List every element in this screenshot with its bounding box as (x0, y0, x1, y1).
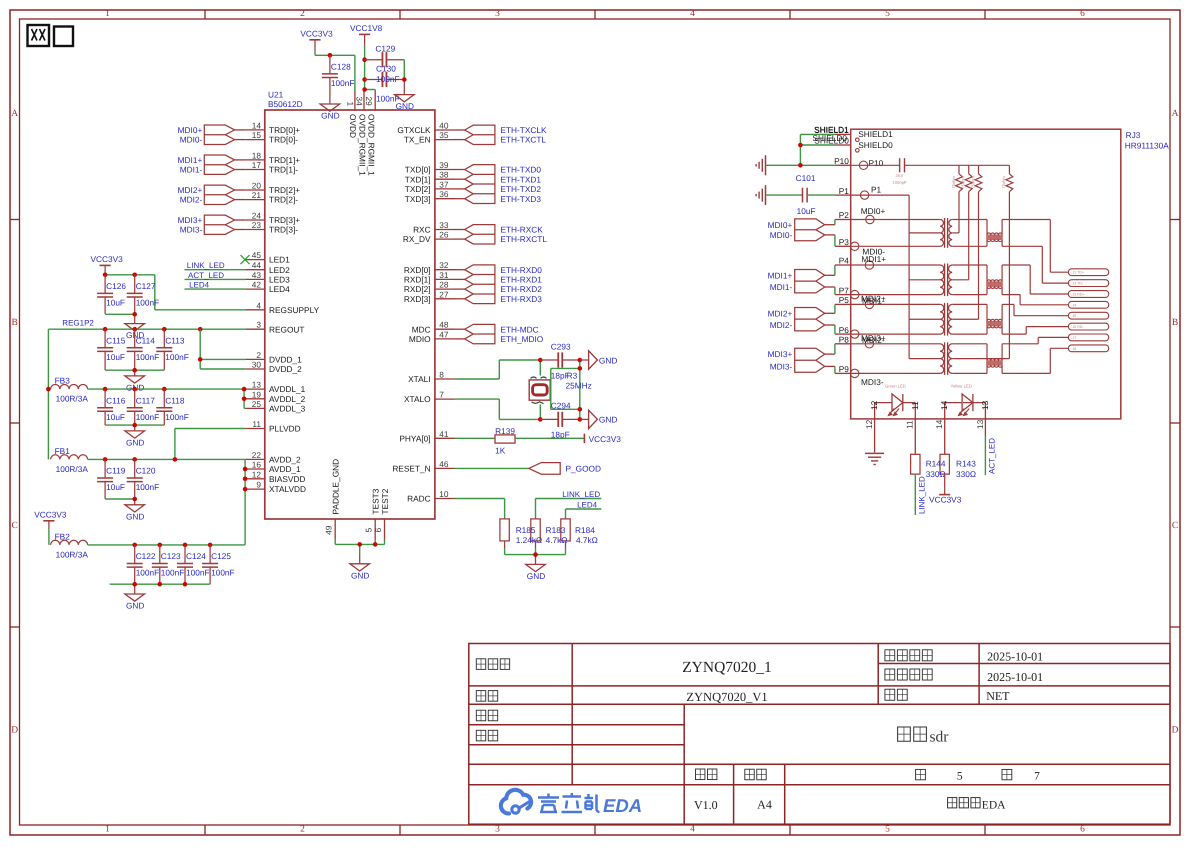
junction (373, 542, 378, 547)
svg-text:1K: 1K (495, 445, 506, 455)
svg-text:1: 1 (105, 825, 110, 835)
common-mode choke L1 (986, 220, 1003, 247)
U21 pin 24 TRD[3]+ (245, 211, 300, 226)
svg-text:14: 14 (934, 419, 944, 429)
junction (198, 357, 203, 362)
junction (578, 407, 583, 412)
net port MDI0+/MDI0- (RJ45 side) (768, 219, 835, 246)
svg-text:R183: R183 (546, 525, 566, 535)
U21 pin 9 XTALVDD (245, 480, 306, 495)
svg-text:TEST2: TEST2 (380, 488, 390, 514)
U21 pin 8 XTALI (408, 370, 454, 385)
ferrite bead FB1 (51, 446, 89, 474)
U21 pin 49 PADDLE_GND (324, 459, 341, 540)
junction (243, 487, 248, 492)
svg-text:AVDD_1: AVDD_1 (269, 464, 301, 474)
earth ground pin12 (865, 453, 884, 464)
svg-text:MDI1+: MDI1+ (178, 155, 203, 165)
wire REGOUT rail (48, 329, 245, 459)
svg-text:P6: P6 (839, 325, 850, 335)
U21 pin 16 AVDD_1 (245, 460, 301, 475)
svg-text:BIASVDD: BIASVDD (269, 474, 305, 484)
svg-text:TRD[3]-: TRD[3]- (269, 225, 298, 235)
svg-text:ETH-RXD3: ETH-RXD3 (500, 294, 542, 304)
JLC EDA logo (501, 790, 642, 816)
svg-text:P5: P5 (839, 295, 850, 305)
svg-text:J4: J4 (1073, 303, 1077, 307)
svg-text:MDI2+: MDI2+ (178, 185, 203, 195)
svg-text:40: 40 (439, 121, 449, 131)
svg-text:VCC3V3: VCC3V3 (300, 29, 333, 39)
svg-text:RXD[2]: RXD[2] (404, 284, 431, 294)
resistor R183 (531, 519, 540, 541)
ferrite bead FB2 (51, 531, 89, 559)
svg-text:28: 28 (439, 280, 449, 290)
junction (103, 387, 108, 392)
svg-text:4: 4 (256, 300, 261, 310)
svg-text:ETH-TXD1: ETH-TXD1 (500, 174, 541, 184)
svg-text:ETH-RXCTL: ETH-RXCTL (500, 234, 547, 244)
U21 pin 21 TRD[2]- (245, 190, 298, 205)
svg-text:ETH-TXCTL: ETH-TXCTL (500, 135, 546, 145)
svg-text:C116: C116 (106, 395, 126, 405)
svg-text:48: 48 (439, 320, 449, 330)
svg-text:100nF: 100nF (136, 298, 160, 308)
svg-text:ETH-MDC: ETH-MDC (500, 324, 538, 334)
svg-text:DVDD_1: DVDD_1 (269, 355, 302, 365)
svg-text:330Ω: 330Ω (956, 469, 976, 479)
junction (798, 163, 803, 168)
svg-text:ETH-TXD2: ETH-TXD2 (500, 184, 541, 194)
U21 pin 30 DVDD_2 (245, 360, 302, 375)
svg-text:P_GOOD: P_GOOD (566, 464, 602, 474)
RJ3 pin SHIELD0 (814, 136, 859, 152)
net label REG1P2 (62, 318, 94, 327)
ground (125, 505, 145, 522)
ground flag (589, 351, 618, 369)
wire RJ45 contact route 1 (1002, 220, 1068, 273)
junction (362, 57, 367, 62)
svg-text:ETH-RXD1: ETH-RXD1 (500, 275, 542, 285)
capacitor C125 (202, 545, 235, 584)
capacitor C119 (97, 459, 126, 499)
power VCC3V3 (300, 29, 333, 52)
junction (578, 417, 583, 422)
junction (243, 477, 248, 482)
svg-text:36: 36 (439, 189, 449, 199)
svg-text:2025-10-01: 2025-10-01 (987, 649, 1043, 663)
svg-text:15: 15 (252, 130, 262, 140)
U21 pin 47 MDIO (409, 329, 455, 344)
RJ3 pin P3 (835, 237, 859, 251)
svg-text:AVDDL_2: AVDDL_2 (269, 394, 306, 404)
svg-text:J5: J5 (1073, 314, 1077, 318)
svg-text:ETH-TXCLK: ETH-TXCLK (500, 125, 547, 135)
svg-text:GND: GND (126, 511, 144, 521)
RJ3 inside pin names (858, 129, 893, 387)
RJ3 pin P1 (835, 186, 869, 200)
svg-text:C117: C117 (136, 395, 156, 405)
svg-text:sdr: sdr (930, 728, 950, 745)
RJ3 pin P9 (835, 364, 859, 377)
junction (798, 143, 803, 148)
LED Green LED (875, 384, 906, 416)
resistor R185 (500, 519, 509, 541)
junction (162, 387, 167, 392)
SHIELD net labels (812, 124, 849, 142)
svg-text:TRD[0]+: TRD[0]+ (269, 125, 300, 135)
svg-text:4.7kΩ: 4.7kΩ (576, 535, 598, 545)
ground (350, 564, 370, 581)
svg-text:FB3: FB3 (55, 376, 71, 386)
svg-text:11: 11 (910, 401, 920, 410)
svg-text:PHYA[0]: PHYA[0] (399, 433, 430, 443)
svg-text:21: 21 (252, 190, 262, 200)
junction (132, 457, 137, 462)
U21 pin 15 TRD[0]- (245, 130, 298, 145)
power VCC3V3 (90, 254, 123, 277)
RJ3 pin P5 (835, 295, 874, 308)
svg-text:ETH-RXD2: ETH-RXD2 (500, 284, 542, 294)
svg-text:R3: R3 (567, 371, 578, 381)
svg-text:TRD[0]-: TRD[0]- (269, 135, 298, 145)
svg-text:MDI2+: MDI2+ (768, 308, 793, 318)
svg-text:SHIELD0: SHIELD0 (858, 140, 893, 150)
svg-text:LED4: LED4 (577, 501, 598, 510)
svg-text:26: 26 (439, 230, 449, 240)
junction (328, 53, 333, 58)
wire cap bottoms (105, 425, 164, 431)
U21 pin 6 TEST2 (373, 488, 390, 540)
ground (125, 324, 145, 341)
svg-text:C101: C101 (796, 173, 816, 183)
svg-text:GND: GND (599, 355, 617, 365)
svg-text:LED2: LED2 (269, 265, 290, 275)
U21 pin 19 AVDDL_2 (245, 389, 305, 404)
resistor 75ohm #1 (951, 165, 963, 233)
svg-text:22: 22 (252, 450, 262, 460)
resistor R144 (911, 454, 920, 474)
U21 pin 14 TRD[0]+ (245, 120, 300, 135)
RJ3 pin P6 (835, 325, 859, 339)
capacitor C129 (365, 52, 405, 67)
U21 pin 25 AVDDL_3 (245, 399, 305, 414)
capacitor C114 (127, 329, 160, 370)
svg-text:TX_EN: TX_EN (404, 135, 431, 145)
RJ3 pin 13 (975, 400, 990, 436)
U21 pin 28 RXD[2] (404, 280, 455, 295)
svg-text:Yellow LED: Yellow LED (951, 384, 972, 389)
U21 pin 48 MDC (412, 320, 455, 335)
RJ3 pin P4 (835, 256, 874, 269)
svg-text:RJ3: RJ3 (1126, 130, 1141, 140)
U21 pin 40 GTXCLK (397, 121, 454, 136)
capacitor C113 (156, 329, 189, 370)
svg-text:2: 2 (300, 825, 305, 835)
svg-text:25: 25 (252, 399, 262, 409)
svg-text:GND: GND (126, 601, 144, 611)
svg-text:RXC: RXC (413, 225, 431, 235)
U21 pin 37 TXD[2] (405, 179, 455, 194)
net port group ETH-TXCLK (455, 125, 547, 145)
svg-text:ETH-TXD3: ETH-TXD3 (500, 194, 541, 204)
wire resistor bottoms (505, 541, 566, 565)
U21 pin 27 RXD[3] (404, 289, 455, 304)
svg-text:24: 24 (252, 211, 262, 221)
LED Yellow LED (945, 384, 973, 416)
wire VCC3V3 to pin1 (315, 51, 355, 91)
wire AVDDL rail (88, 389, 246, 408)
svg-text:13: 13 (975, 419, 985, 429)
C129/C130 labels (375, 43, 399, 103)
svg-text:100nF: 100nF (165, 412, 189, 422)
junction (103, 327, 108, 332)
svg-text:2KV: 2KV (896, 173, 904, 178)
svg-text:1: 1 (345, 102, 355, 107)
capacitor C127 (127, 275, 160, 314)
junction (173, 457, 178, 462)
wire C129/C130 right (403, 60, 405, 95)
U21 pin 42 LED4 (245, 280, 290, 295)
resistor R184 (561, 519, 570, 541)
svg-text:TRD[3]+: TRD[3]+ (269, 215, 300, 225)
capacitor C123 (152, 545, 185, 584)
U21 pin 36 TXD[3] (405, 189, 455, 204)
wire VCC1V8 rail (365, 46, 376, 92)
net port P_GOOD (455, 463, 602, 475)
RJ45 contact J4 (1068, 301, 1108, 308)
svg-text:330Ω: 330Ω (926, 469, 946, 479)
svg-text:RXD[0]: RXD[0] (404, 265, 431, 275)
wire XTALI (455, 360, 541, 379)
junction (242, 387, 247, 392)
svg-text:MDI1-: MDI1- (180, 165, 203, 175)
junction (132, 368, 137, 373)
RJ3 pin 12 (864, 400, 879, 452)
U21 pin 38 TXD[1] (405, 170, 455, 185)
ground (125, 594, 145, 611)
ferrite bead FB3 (51, 376, 89, 404)
svg-text:1.24kΩ: 1.24kΩ (516, 535, 543, 545)
svg-text:P2: P2 (839, 210, 850, 220)
svg-text:ETH-RXCK: ETH-RXCK (500, 225, 543, 235)
junction (357, 542, 362, 547)
svg-text:17: 17 (252, 160, 262, 170)
U21 pin 17 TRD[1]- (245, 160, 298, 175)
svg-text:10uF: 10uF (106, 482, 125, 492)
svg-text:ACT_LED: ACT_LED (188, 271, 224, 280)
svg-text:2: 2 (256, 350, 261, 360)
U21 pin 39 TXD[0] (405, 160, 455, 175)
svg-text:MDI0-: MDI0- (180, 135, 203, 145)
svg-text:C113: C113 (165, 335, 185, 345)
power flag VCC3V3 at R139 (584, 434, 621, 444)
wire RJ45 contact route 6 (1002, 327, 1068, 335)
svg-text:LED3: LED3 (269, 275, 290, 285)
svg-text:J1 TD+: J1 TD+ (1073, 271, 1085, 275)
capacitor C116 (97, 389, 126, 425)
svg-text:P1: P1 (871, 185, 882, 195)
svg-text:35: 35 (439, 130, 449, 140)
net port group ETH-RXCK (455, 225, 548, 245)
svg-text:C: C (1172, 521, 1178, 531)
svg-text:3: 3 (256, 320, 261, 330)
svg-text:3: 3 (495, 825, 500, 835)
wire cap bottoms (105, 499, 135, 505)
svg-text:R139: R139 (495, 426, 515, 436)
wire RJ45 contact route 3 (1002, 265, 1068, 294)
RJ3 pin 11 (905, 401, 920, 454)
svg-text:VCC3V3: VCC3V3 (589, 434, 622, 444)
RJ45 contact J5 (1068, 312, 1108, 319)
junction (538, 417, 543, 422)
C293/C294 labels (551, 341, 571, 439)
svg-text:FB1: FB1 (55, 446, 71, 456)
net port group ETH-MDC (455, 324, 544, 344)
junction (103, 273, 108, 278)
svg-text:5: 5 (885, 9, 890, 19)
ground (395, 95, 415, 112)
capacitor C118 (156, 389, 189, 425)
net port MDI3+/MDI3- (178, 215, 246, 235)
svg-text:TXD[2]: TXD[2] (405, 184, 431, 194)
svg-text:TRD[1]+: TRD[1]+ (269, 155, 300, 165)
wire P1 center-tap bus (851, 195, 909, 359)
svg-text:MDC: MDC (412, 324, 431, 334)
RJ45 contact J2 TD- (1068, 280, 1108, 287)
svg-text:5: 5 (885, 825, 890, 835)
U21 pin 23 TRD[3]- (245, 220, 298, 235)
svg-text:ETH-TXD0: ETH-TXD0 (500, 165, 541, 175)
svg-text:NET: NET (986, 689, 1010, 703)
svg-text:100nF: 100nF (136, 482, 160, 492)
power flag VCC3V3 at R143 (929, 474, 962, 504)
svg-text:RXD[3]: RXD[3] (404, 294, 431, 304)
U21 pin 31 RXD[1] (404, 270, 455, 285)
svg-text:C118: C118 (165, 395, 185, 405)
svg-text:GND: GND (321, 111, 339, 121)
svg-text:MDI0+: MDI0+ (768, 220, 793, 230)
title block texts (476, 649, 1043, 812)
svg-text:EDA: EDA (603, 795, 642, 816)
power VCC3V3 (34, 510, 67, 529)
svg-text:33: 33 (439, 220, 449, 230)
svg-text:14: 14 (252, 120, 262, 130)
svg-text:AVDDL_1: AVDDL_1 (269, 384, 306, 394)
resistor 75ohm #3 (970, 165, 982, 319)
svg-text:TRD[2]-: TRD[2]- (269, 195, 298, 205)
junction (362, 77, 367, 82)
U21 pin 2 DVDD_1 (245, 350, 302, 365)
earth ground (756, 155, 765, 175)
svg-text:1: 1 (105, 9, 110, 19)
junction (103, 457, 108, 462)
svg-text:TXD[0]: TXD[0] (405, 165, 431, 175)
svg-text:TRD[2]+: TRD[2]+ (269, 185, 300, 195)
no-connect flag (241, 255, 250, 264)
svg-text:C122: C122 (136, 551, 156, 561)
svg-text:14: 14 (939, 400, 949, 410)
resistor R139 1K (455, 426, 585, 455)
svg-text:100R/3A: 100R/3A (56, 394, 89, 404)
svg-text:J8: J8 (1073, 347, 1077, 351)
svg-text:LINK_LED: LINK_LED (187, 261, 225, 270)
svg-text:C130: C130 (376, 63, 396, 73)
svg-text:AVDD_2: AVDD_2 (269, 455, 301, 465)
svg-text:J6 RD-: J6 RD- (1073, 325, 1085, 329)
svg-text:MDI2-: MDI2- (180, 195, 203, 205)
svg-text:XTALVDD: XTALVDD (269, 484, 306, 494)
svg-text:A4: A4 (757, 798, 772, 812)
svg-text:FB2: FB2 (55, 531, 71, 541)
svg-text:100nF: 100nF (136, 568, 160, 578)
svg-text:GND: GND (126, 438, 144, 448)
wire cap bottoms (110, 584, 211, 594)
svg-text:30: 30 (252, 360, 262, 370)
U21 pin 12 BIASVDD (245, 469, 305, 484)
svg-text:C123: C123 (161, 551, 181, 561)
junction (132, 327, 137, 332)
svg-text:XTALI: XTALI (408, 374, 430, 384)
ground (125, 431, 145, 448)
common-mode choke L2 (986, 265, 1003, 295)
svg-text:10uF: 10uF (797, 206, 816, 216)
net label ACT_LED wire (185, 271, 246, 280)
common-mode choke L3 (986, 304, 1003, 334)
junction (183, 543, 188, 548)
svg-text:J3 RD+: J3 RD+ (1073, 293, 1085, 297)
junction (533, 552, 538, 557)
RJ45 contact J1 TD+ (1068, 269, 1108, 276)
svg-text:C293: C293 (551, 341, 571, 351)
junction (208, 543, 213, 548)
net label LED4 (RADC area) (566, 501, 602, 519)
svg-text:6: 6 (1080, 9, 1085, 19)
svg-text:LED4: LED4 (189, 281, 210, 290)
svg-text:43: 43 (252, 270, 262, 280)
capacitor C117 (127, 389, 160, 425)
svg-text:MDI3+: MDI3+ (178, 215, 203, 225)
svg-text:7: 7 (439, 390, 444, 400)
junction (132, 582, 137, 587)
svg-text:MDI3+: MDI3+ (768, 349, 793, 359)
svg-text:38: 38 (439, 170, 449, 180)
svg-text:AVDDL_3: AVDDL_3 (269, 404, 306, 414)
svg-text:VCC3V3: VCC3V3 (90, 254, 123, 264)
junction (46, 387, 51, 392)
svg-text:LINK_LED: LINK_LED (562, 490, 600, 499)
U21 pin 29 OVDD_RGMII_1 (364, 90, 377, 177)
wire to gnd flags (580, 360, 589, 419)
svg-text:VCC1V8: VCC1V8 (350, 23, 383, 33)
net port group ETH-RXD0 (455, 265, 543, 304)
U21 pin 5 TEST3 (364, 488, 381, 540)
svg-text:ETH-RXD0: ETH-RXD0 (500, 265, 542, 275)
svg-text:REGOUT: REGOUT (269, 324, 305, 334)
RJ45 contact J8 (1068, 345, 1108, 352)
svg-text:C125: C125 (211, 551, 231, 561)
junction (538, 358, 543, 363)
resistor R143 (940, 454, 949, 474)
svg-text:100R/3A: 100R/3A (56, 464, 89, 474)
svg-text:45: 45 (252, 250, 262, 260)
svg-text:100nF: 100nF (161, 568, 185, 578)
svg-text:10: 10 (439, 489, 449, 499)
svg-text:RESET_N: RESET_N (392, 464, 430, 474)
U21 pin 22 AVDD_2 (245, 450, 301, 465)
junction (158, 543, 163, 548)
junction (132, 423, 137, 428)
